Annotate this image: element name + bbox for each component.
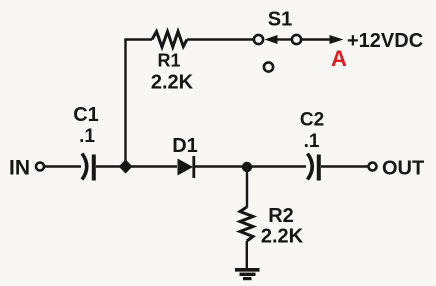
svg-text:+12VDC: +12VDC [347, 30, 423, 52]
svg-text:C1: C1 [73, 104, 99, 126]
wire C1 to D1 [96, 165, 177, 167]
switch S1 throw contact [254, 35, 263, 44]
wire arrow to pole [276, 38, 292, 40]
wire pole to +12VDC [302, 38, 332, 40]
svg-text:IN: IN [9, 157, 30, 180]
wire R1 to S1 [187, 38, 254, 40]
ground [235, 270, 260, 279]
node junction 1 [120, 161, 131, 172]
capacitor C2 [308, 154, 319, 181]
svg-text:R2: R2 [268, 205, 294, 227]
node junction 2 [242, 162, 252, 172]
wire C2 to OUT [321, 165, 369, 167]
switch S1 alternate throw contact [264, 62, 273, 71]
capacitor C1 [82, 154, 94, 181]
svg-text:S1: S1 [268, 9, 292, 31]
switch S1 arrow to throw [265, 35, 278, 44]
terminal IN [36, 163, 44, 171]
diode D1 [178, 156, 194, 178]
svg-text:2.2K: 2.2K [261, 226, 304, 248]
svg-text:A: A [331, 46, 347, 71]
resistor R1 [152, 32, 187, 48]
wire junction2 down to R2 [246, 167, 248, 208]
wire R2 to ground [246, 241, 248, 269]
wire IN to C1 [45, 165, 82, 167]
wire top to R1 [124, 38, 152, 40]
wire D1 to C2 [194, 165, 306, 167]
wire junction1 up [124, 40, 126, 167]
arrow to +12VDC [330, 35, 344, 44]
svg-text:2.2K: 2.2K [151, 72, 194, 94]
svg-text:C2: C2 [300, 110, 324, 131]
svg-text:.1: .1 [79, 126, 95, 147]
terminal OUT [369, 163, 377, 171]
svg-text:OUT: OUT [382, 158, 424, 180]
svg-text:.1: .1 [304, 131, 320, 152]
switch S1 pole contact [292, 35, 301, 44]
resistor R2 [240, 207, 253, 241]
svg-text:R1: R1 [157, 51, 180, 71]
svg-text:D1: D1 [172, 135, 198, 157]
